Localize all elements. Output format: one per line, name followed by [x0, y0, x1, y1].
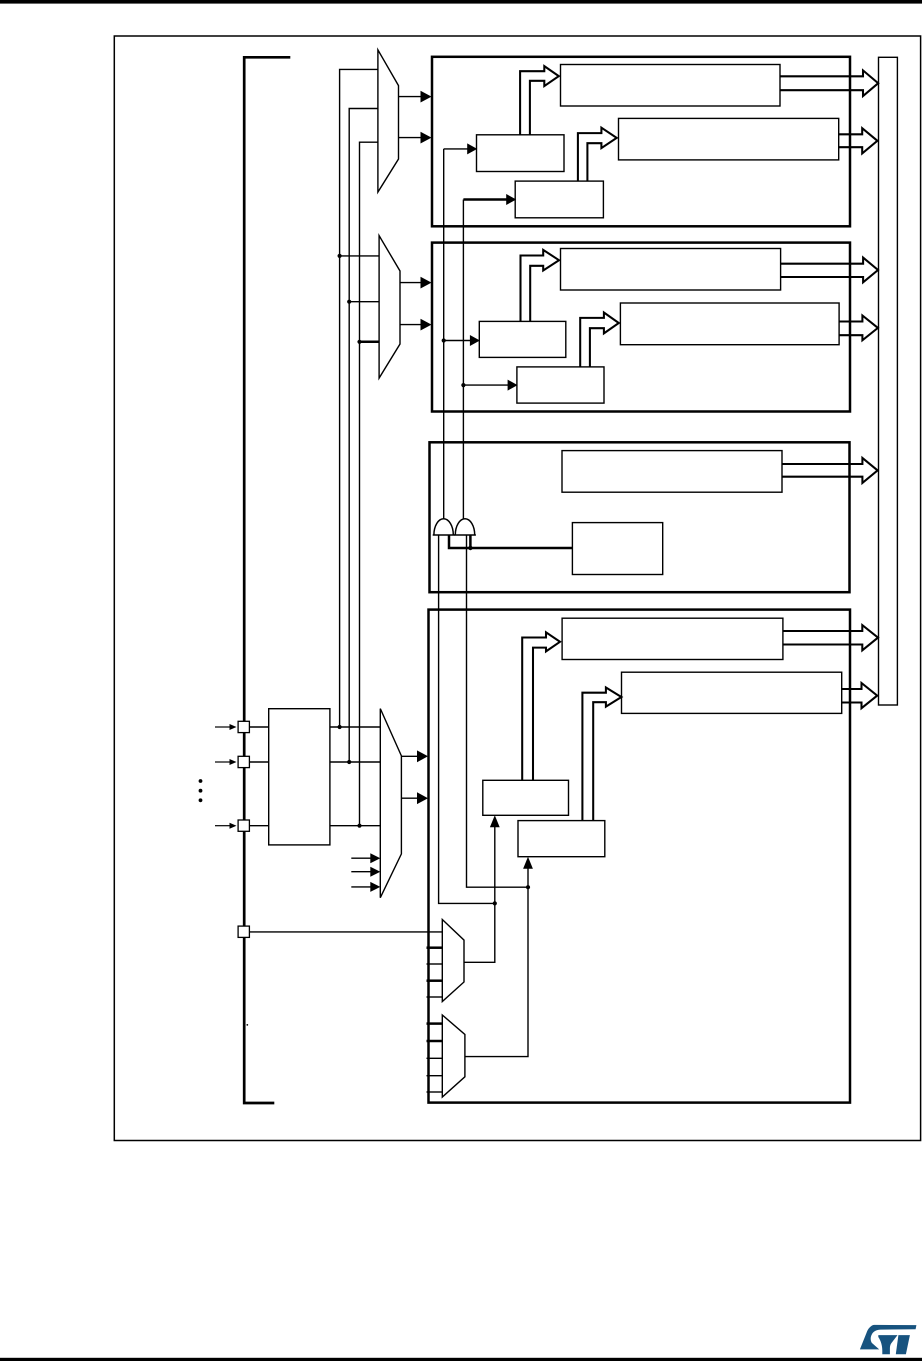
wire trap1 output [464, 903, 495, 962]
header rule [0, 0, 922, 4]
wire arrow into prescaler1 [444, 148, 468, 150]
wire ETR [249, 931, 442, 933]
wire tap mux2 in3 bold [360, 341, 380, 344]
pad TIMx_ETR [238, 926, 249, 937]
figure frame [114, 36, 920, 1141]
control box 2 [517, 367, 604, 403]
ST logo [860, 1325, 917, 1354]
wire trap2 tick2 [427, 1040, 443, 1043]
wire tap mux2 in2 [349, 301, 379, 303]
wire mux2 out2 [400, 324, 424, 326]
wire trap2 tick5 [427, 1091, 443, 1093]
pad TIMx_CH3 [238, 820, 249, 831]
wire trap2 tick4 [427, 1075, 443, 1077]
hollow elbow arrow box4 to register4b [582, 688, 621, 821]
prescaler 1 [477, 135, 565, 172]
wire itr arrow 1 [351, 857, 372, 859]
control box 3 [572, 523, 662, 575]
channel 4 group box [429, 610, 851, 1103]
input block [269, 709, 330, 845]
wire trap1 tick3 [427, 963, 443, 965]
wire input arrow 3 [215, 825, 231, 827]
hollow elbow arrow box1 to register1b [578, 128, 617, 182]
compare register 2b [620, 303, 839, 345]
wire block to mux4 in1 [330, 726, 380, 728]
ellipsis dots [199, 779, 203, 783]
wire itr arrow 3 [351, 886, 372, 888]
wire gateB below line [467, 535, 529, 887]
wire gateB output bold [469, 535, 472, 548]
node bus A tap [338, 254, 342, 258]
wire gateA below line [439, 535, 495, 903]
hollow elbow arrow box2 to register2b [580, 313, 619, 367]
hollow elbow arrow prescaler2 to register2 [521, 250, 560, 322]
prescaler 4 [483, 780, 569, 815]
wire pad3 to block [249, 825, 268, 827]
wire block to mux4 in3 [330, 825, 380, 827]
mux M4 [380, 709, 401, 898]
wire trap1 tick4 [427, 979, 443, 982]
node TI1 tap [442, 338, 446, 342]
wire bus C vertical [360, 142, 378, 826]
capture/compare register 3 [562, 451, 782, 493]
hollow arrow register4b out [842, 683, 878, 708]
wire trigger up into prescaler4 [494, 824, 496, 904]
mux trigger edge detector 2 [442, 1015, 465, 1097]
compare register 4b [622, 672, 842, 713]
wire mux2 out1 [400, 282, 424, 284]
wire gateA output bold [449, 535, 572, 548]
hollow elbow arrow prescaler1 to register1 [520, 66, 559, 135]
wire mux1 out1 [399, 96, 425, 98]
hollow arrow register1b out [839, 128, 878, 153]
node gate outputs junction [468, 546, 472, 550]
node trigger junction 2 [526, 885, 530, 889]
wire trap2 output [465, 887, 528, 1056]
wire trap2 tick3 [427, 1057, 443, 1059]
pad TIMx_CH2 [238, 756, 249, 767]
hollow arrow register2 out [781, 258, 878, 283]
hollow elbow arrow prescaler4 to register4 [522, 632, 560, 780]
capture/compare register 1 [561, 65, 781, 107]
hollow arrow register3 out [782, 458, 878, 483]
capture/compare register 2 [561, 249, 781, 291]
node trigger junction [493, 901, 497, 905]
mux trigger edge detector 1 [442, 920, 464, 1002]
wire mux4 out2 [401, 797, 420, 799]
compare register 1b [619, 118, 839, 159]
hollow arrow register2b out [839, 316, 878, 341]
node bus C tap [357, 340, 361, 344]
wire bus A vertical [340, 69, 378, 727]
output bus tall box [879, 57, 898, 705]
prescaler 2 [479, 321, 566, 357]
and gate B [455, 519, 474, 535]
wire itr arrow 2 [351, 871, 372, 873]
wire input arrow 1 [215, 726, 231, 728]
wire arrow into box1 [463, 198, 507, 201]
footer rule [0, 1358, 922, 1361]
wire tap mux2 in1 [340, 255, 380, 257]
pad TIMx_CH1 [238, 721, 249, 732]
hollow arrow register4 out [783, 625, 878, 650]
control box 4 [518, 821, 605, 857]
mux M2 [379, 236, 400, 379]
wire trap1 tick2 [427, 946, 443, 949]
wire arrow into box2 [463, 384, 508, 386]
node bus B root [347, 760, 351, 764]
wire arrow into prescaler2 [444, 340, 471, 342]
hollow arrow register1 out [780, 70, 878, 96]
and gate A [434, 519, 453, 535]
wire mux1 out2 [399, 137, 425, 139]
wire block to mux4 in2 [330, 761, 380, 763]
channel 3 group box [430, 442, 850, 592]
capture/compare register 4 [562, 618, 783, 659]
node bus A root [338, 725, 342, 729]
node TI2 tap [461, 383, 465, 387]
channel 2 group box [432, 243, 850, 412]
wire TI2 line [462, 200, 464, 519]
wire bus B vertical [349, 109, 378, 763]
wire trap1 tick5 [427, 996, 443, 998]
channel 1 group box [432, 57, 850, 227]
wire trap2 tick1 [427, 1022, 443, 1025]
wire mux4 out1 [401, 755, 420, 757]
node bus C root [357, 824, 361, 828]
mux M1 [378, 50, 399, 192]
stray dot [246, 1024, 248, 1026]
internal clock bus bracket [244, 57, 290, 1103]
node bus B tap [347, 300, 351, 304]
control box 1 [515, 181, 603, 218]
wire trigger up into box4 [527, 865, 529, 887]
wire TI1 line [443, 149, 445, 519]
wire input arrow 2 [215, 761, 231, 763]
wire pad2 to block [249, 761, 268, 763]
wire pad1 to block [249, 726, 268, 728]
